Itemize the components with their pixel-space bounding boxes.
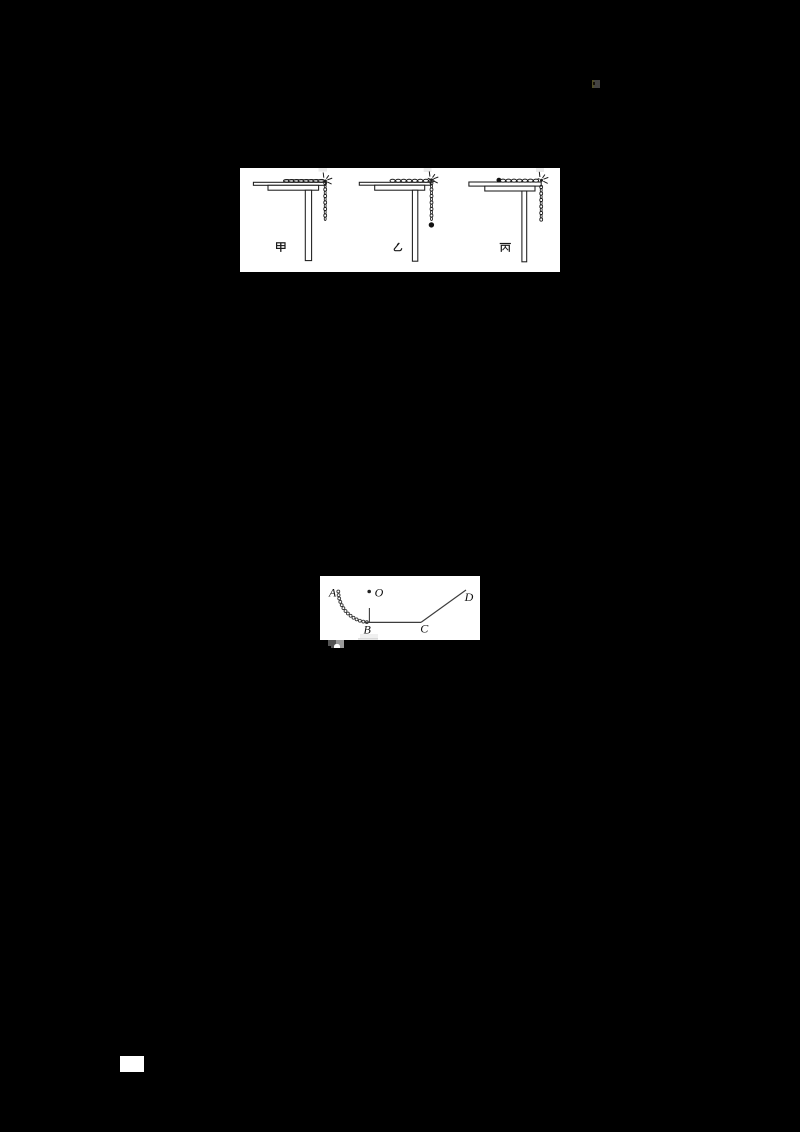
table yi leg bbox=[412, 190, 417, 261]
table bing hanging chain bbox=[540, 185, 543, 221]
faint gray smudge above spark bing bbox=[536, 168, 544, 172]
figure 2: curved bead track A O B C D bbox=[320, 576, 480, 640]
table jia chain on tabletop (dense dark links) bbox=[284, 180, 325, 183]
tiny page icon top right: body bbox=[592, 80, 600, 88]
track segment B to C bbox=[365, 621, 421, 623]
gray blob icon below figure 2: white mound bbox=[334, 644, 340, 648]
white rectangle bottom left bbox=[120, 1056, 144, 1072]
faint gray smudge above spark jia bbox=[319, 168, 328, 172]
table bing leg bbox=[522, 191, 527, 262]
ball at end of yi hanging chain bbox=[429, 222, 434, 227]
svg-text:B: B bbox=[364, 623, 372, 637]
table jia leg bbox=[305, 190, 311, 260]
centre point O dot bbox=[367, 590, 371, 594]
faint gray patch near bottom edge bbox=[360, 634, 378, 639]
table yi hanging chain bbox=[430, 181, 433, 220]
svg-text:C: C bbox=[420, 622, 429, 636]
svg-text:O: O bbox=[375, 586, 384, 600]
bead chain along arc A to B bbox=[337, 590, 368, 624]
label jia (CJK) bbox=[277, 243, 285, 252]
table jia apron bbox=[268, 185, 319, 190]
svg-text:A: A bbox=[328, 586, 337, 600]
figure 1: three tables with chains (jia, yi, bing) bbox=[240, 168, 560, 272]
ball on table bing bbox=[497, 178, 502, 183]
gray blob icon below figure 2: dark half bbox=[328, 640, 336, 648]
gray blob icon below figure 2: light half bbox=[336, 640, 344, 648]
table yi tabletop board bbox=[359, 182, 431, 185]
label bing (CJK) bbox=[500, 244, 511, 252]
table jia tabletop board bbox=[253, 182, 325, 185]
faint gray smudge above spark yi bbox=[424, 168, 432, 172]
table yi apron bbox=[375, 185, 425, 190]
spark at table jia corner bbox=[322, 173, 333, 185]
table bing apron bbox=[485, 186, 535, 191]
table bing chain on tabletop bbox=[500, 179, 538, 182]
tiny page icon top right: dark spot bbox=[593, 82, 595, 85]
table yi chain on tabletop bbox=[390, 179, 434, 182]
table jia hanging chain bbox=[324, 181, 327, 220]
spark at table bing corner bbox=[538, 172, 549, 184]
vertical tick above B bbox=[368, 608, 370, 622]
spark at table yi corner bbox=[428, 171, 439, 183]
gray blob icon below figure 2: black notch bbox=[328, 646, 331, 649]
svg-text:D: D bbox=[464, 590, 474, 604]
label yi (CJK) bbox=[394, 243, 401, 251]
table bing tabletop board bbox=[469, 182, 541, 186]
tiny page icon top right: olive left edge bbox=[592, 80, 594, 88]
track segment C to D bbox=[421, 590, 466, 622]
